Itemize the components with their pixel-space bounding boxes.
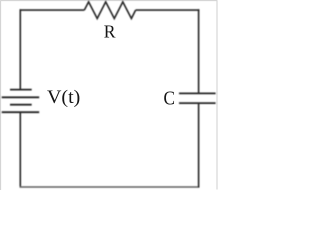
svg-text:V(t): V(t) — [47, 87, 80, 107]
wire top-right — [136, 9, 200, 11]
battery V(t) plate short top — [10, 89, 32, 91]
wire bottom — [20, 186, 200, 188]
wire left upper — [19, 9, 21, 89]
wire right upper — [198, 9, 200, 93]
battery plate long upper — [2, 96, 40, 98]
resistor R — [84, 2, 135, 19]
wire top-left — [20, 9, 85, 11]
battery plate long bottom — [2, 111, 40, 113]
svg-text:R: R — [104, 21, 117, 41]
wire right lower — [198, 103, 200, 187]
svg-text:C: C — [164, 87, 175, 110]
frame border top/left/right — [1, 1, 217, 190]
battery plate short lower — [10, 104, 32, 106]
capacitor C plate bottom — [179, 102, 216, 104]
frame border bottom — [0, 188, 217, 190]
wire left lower — [19, 112, 21, 187]
capacitor C plate top — [179, 92, 216, 94]
